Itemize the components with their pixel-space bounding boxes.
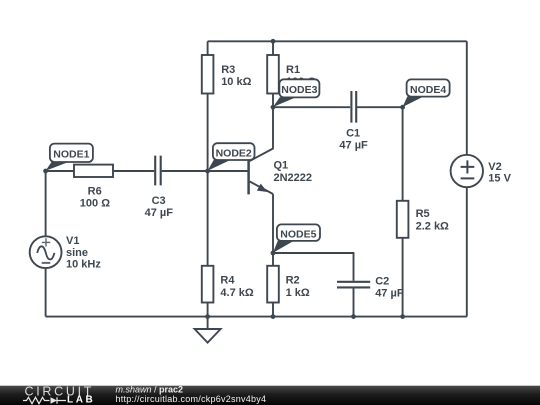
node NODE2 junction — [205, 169, 210, 174]
node NODE3 junction — [271, 105, 276, 110]
wire right vertical to V2 top — [466, 41, 468, 155]
svg-text:LAB: LAB — [67, 394, 95, 405]
wire node3 to Q1 collector — [250, 107, 273, 161]
resistor R2 — [267, 266, 279, 303]
svg-text:15 V: 15 V — [488, 173, 511, 185]
wire Q1 emitter to node5 — [272, 194, 274, 253]
voltage source V1 — [30, 236, 62, 268]
svg-text:sine: sine — [66, 247, 88, 259]
capacitor C1 — [351, 91, 356, 123]
svg-text:R3: R3 — [221, 64, 235, 76]
svg-text:NODE5: NODE5 — [280, 229, 316, 241]
wire node2 to R4 — [207, 171, 209, 266]
svg-text:R2: R2 — [286, 274, 300, 286]
node NODE1 junction — [43, 169, 48, 174]
label V2 value — [488, 161, 511, 185]
wire V1 bottom to bottom rail — [45, 268, 47, 316]
node NODE5 junction — [271, 251, 276, 256]
svg-text:R5: R5 — [416, 208, 430, 220]
node flag NODE3 — [273, 79, 319, 107]
label Q1 value — [274, 160, 313, 185]
svg-text:10 kΩ: 10 kΩ — [221, 76, 251, 88]
svg-text:R6: R6 — [88, 185, 102, 197]
node NODE4 junction — [400, 105, 405, 110]
svg-text:V1: V1 — [66, 235, 79, 247]
junction bottom rail R2 — [271, 314, 276, 319]
node flag NODE1 — [46, 144, 93, 171]
capacitor C2 — [337, 282, 370, 288]
wire node5 to C2 — [273, 253, 354, 281]
wire node4 to R5 — [402, 107, 404, 201]
svg-text:R4: R4 — [220, 274, 235, 286]
wire R3 to node2 — [207, 94, 209, 172]
svg-text:1 kΩ: 1 kΩ — [286, 287, 310, 299]
label C1 value — [339, 127, 368, 151]
svg-text:47 µF: 47 µF — [339, 139, 368, 151]
ground — [195, 329, 221, 343]
svg-text:http://circuitlab.com/ckp6v2sn: http://circuitlab.com/ckp6v2snv4by4 — [116, 394, 267, 404]
svg-text:47 µF: 47 µF — [145, 207, 174, 219]
wire ground stub — [207, 317, 209, 329]
wire C2 to bottom rail — [353, 288, 355, 316]
wire top rail to R1 — [272, 41, 274, 55]
wire R1 to node3 — [272, 94, 274, 108]
svg-text:NODE4: NODE4 — [410, 84, 446, 96]
svg-text:10 kHz: 10 kHz — [66, 259, 101, 271]
svg-text:C3: C3 — [152, 195, 166, 207]
wire bottom rail — [46, 316, 467, 318]
wire R5 to bottom rail — [402, 238, 404, 317]
resistor R6 — [74, 165, 113, 177]
capacitor C3 — [155, 156, 161, 186]
label R1 value — [286, 64, 316, 88]
resistor R5 — [397, 201, 409, 238]
wire R4 to bottom rail — [207, 303, 209, 317]
wire node3 to C1 — [273, 106, 350, 108]
svg-text:V2: V2 — [488, 161, 501, 173]
svg-text:NODE1: NODE1 — [53, 148, 89, 160]
label R3 value — [221, 64, 251, 88]
resistor R1 — [267, 55, 279, 94]
transistor Q1 — [249, 160, 273, 194]
voltage source V2 — [451, 155, 483, 187]
svg-text:4.7 kΩ: 4.7 kΩ — [220, 287, 253, 299]
svg-text:NODE2: NODE2 — [216, 147, 252, 159]
node flag NODE2 — [208, 143, 255, 171]
resistor R4 — [202, 266, 214, 303]
label V1 value — [66, 235, 101, 271]
svg-text:100 Ω: 100 Ω — [80, 197, 110, 209]
wire top rail — [208, 40, 467, 42]
label R6 value — [80, 185, 110, 209]
junction bottom rail R5 — [400, 314, 405, 319]
label R2 value — [286, 274, 310, 299]
junction top rail R1 — [271, 39, 276, 44]
wire C1 to node4 — [357, 106, 403, 108]
junction bottom rail C2 — [351, 314, 356, 319]
resistor R3 — [202, 55, 214, 94]
label R5 value — [416, 208, 449, 232]
label C2 value — [375, 275, 404, 299]
wire C3 to node2 — [162, 170, 208, 172]
wire node2 to Q1 base — [208, 170, 249, 172]
wire node1 to R6 — [46, 170, 74, 172]
node flag NODE5 — [273, 224, 320, 252]
svg-text:47 µF: 47 µF — [375, 288, 404, 300]
label C3 value — [145, 195, 174, 219]
logo resistor-diode squiggle — [23, 397, 66, 404]
junction bottom rail ground — [205, 314, 210, 319]
svg-text:2N2222: 2N2222 — [274, 172, 313, 184]
wire R6 to C3 — [113, 170, 154, 172]
svg-text:R1: R1 — [286, 64, 300, 76]
svg-text:Q1: Q1 — [274, 160, 289, 172]
svg-text:2.2 kΩ: 2.2 kΩ — [416, 221, 449, 233]
svg-text:C1: C1 — [346, 127, 360, 139]
wire top rail to R3 — [207, 41, 209, 55]
label R4 value — [220, 274, 253, 299]
svg-text:m.shawn / prac2: m.shawn / prac2 — [116, 384, 184, 394]
wire V2 bottom to bottom rail — [466, 187, 468, 317]
wire R2 to bottom rail — [272, 303, 274, 317]
svg-text:NODE3: NODE3 — [281, 84, 317, 96]
wire node1 to V1 top — [45, 171, 47, 236]
svg-text:C2: C2 — [375, 275, 389, 287]
wire node5 to R2 — [272, 253, 274, 266]
node flag NODE4 — [403, 79, 450, 107]
